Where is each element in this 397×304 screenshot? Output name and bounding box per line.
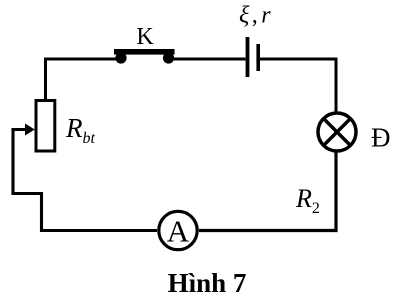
svg-text:Đ: Đ: [371, 123, 391, 153]
lamp cross stroke 2: [323, 118, 351, 146]
wiper arrowhead: [25, 124, 35, 136]
svg-text:R2: R2: [295, 184, 320, 217]
ammeter A circle: [159, 211, 197, 249]
switch K right contact dot: [163, 52, 174, 63]
switch K blade bar: [114, 49, 175, 55]
svg-text:Rbt: Rbt: [65, 113, 96, 147]
svg-text:ξ, r: ξ, r: [239, 3, 271, 29]
lamp cross stroke 1: [323, 118, 351, 146]
battery plate right (short): [256, 44, 260, 71]
svg-text:Hình 7: Hình 7: [168, 268, 247, 298]
wire from switch to battery: [171, 58, 246, 61]
wire top-left from rheostat top up and right to switch: [46, 59, 119, 100]
rheostat R_bt box: [36, 101, 55, 152]
lamp Đ circle: [318, 113, 356, 151]
wire from lamp down to bottom-right corner and left to ammeter: [199, 152, 336, 231]
battery plate left (long): [246, 37, 250, 77]
switch K left contact dot: [115, 52, 126, 63]
svg-text:K: K: [136, 24, 154, 50]
wire from ammeter left to rheostat wiper path: [13, 130, 157, 231]
svg-text:A: A: [167, 214, 190, 249]
wire from battery to top-right corner and down to lamp: [260, 59, 336, 112]
